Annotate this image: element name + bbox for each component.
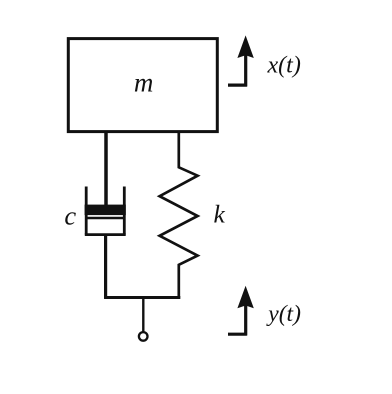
damper C cylinder bottom — [85, 233, 126, 236]
wire: base stem — [142, 298, 144, 332]
damper C inner line — [85, 217, 126, 219]
svg-text:c: c — [64, 201, 76, 231]
arrow y(t) — [228, 286, 254, 336]
damper C cylinder left wall — [85, 187, 88, 235]
svg-text:y(t): y(t) — [266, 301, 301, 327]
damper C piston (filled) — [85, 205, 126, 216]
spring k — [160, 131, 198, 299]
svg-text:k: k — [214, 199, 226, 228]
node: base excitation circle — [139, 332, 148, 341]
damper C cylinder right wall — [123, 187, 126, 235]
wire: base connector — [104, 296, 180, 299]
svg-text:x(t): x(t) — [267, 53, 301, 79]
wire: damper rod to base — [104, 235, 107, 299]
wire: damper rod from mass — [104, 131, 108, 206]
svg-text:m: m — [134, 68, 154, 98]
arrow x(t) — [228, 35, 254, 86]
mass block m — [68, 39, 217, 132]
